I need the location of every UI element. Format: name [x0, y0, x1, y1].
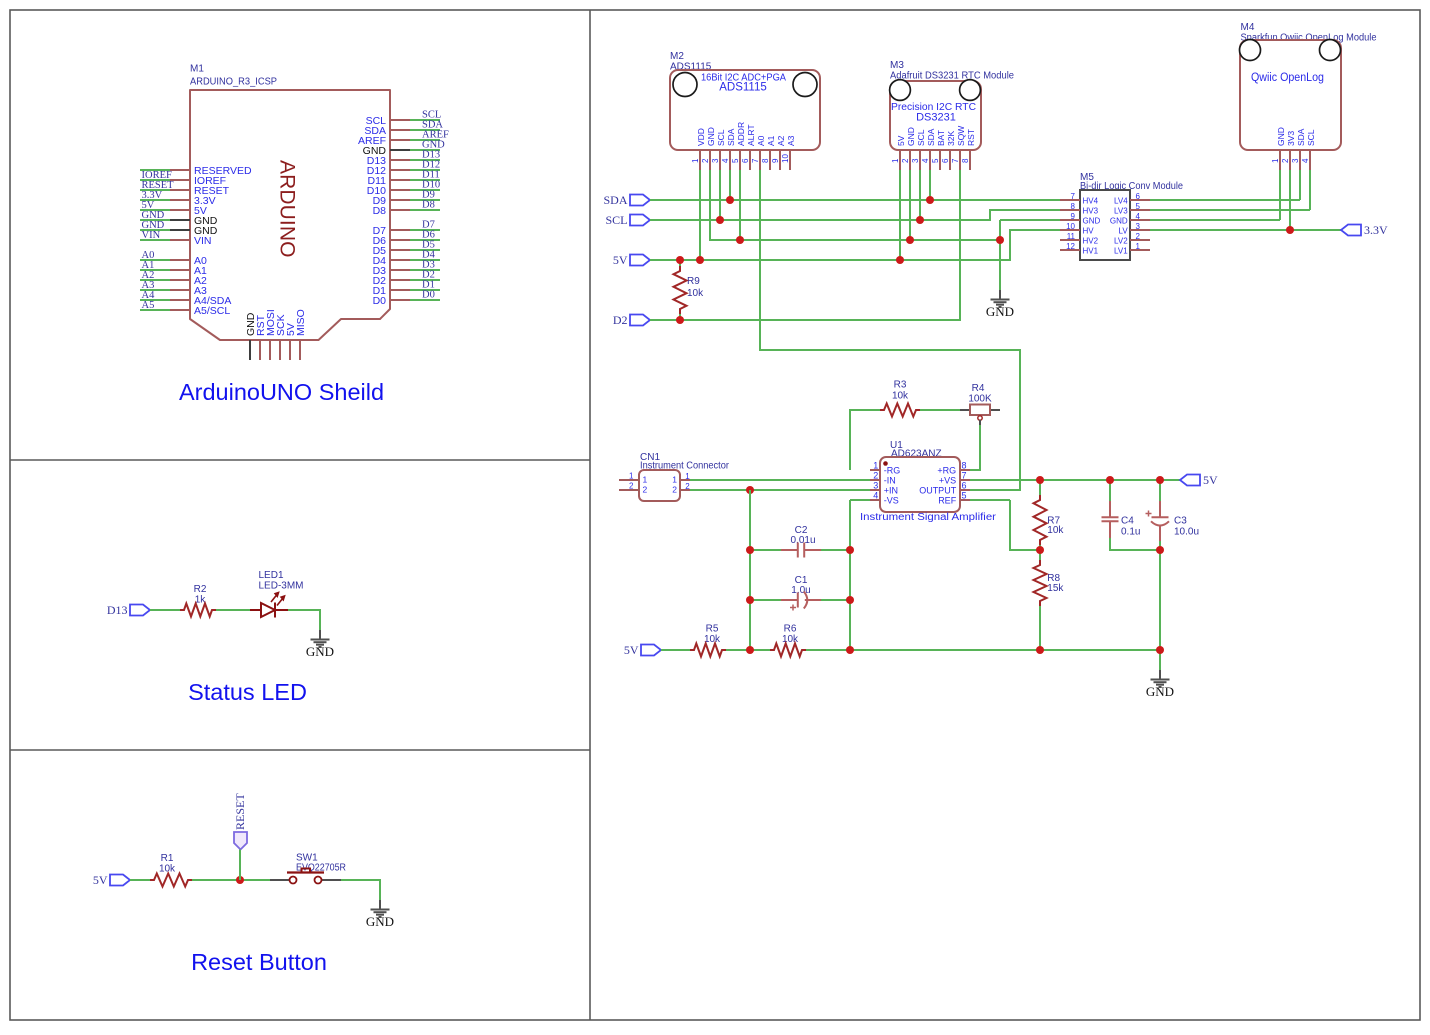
wire 5V to C3	[1159, 480, 1161, 501]
M3 pin 5 BAT	[939, 150, 941, 170]
wire 5V to R9	[679, 260, 681, 266]
wire 5V to R1	[130, 879, 150, 881]
net flag 3.3V	[1341, 225, 1361, 236]
M1 pin A0	[170, 259, 190, 261]
ground GND (I2C bus)	[991, 290, 1010, 307]
CN1 pin 2	[680, 489, 690, 491]
module M5 Bi-dir Logic Conv	[1080, 172, 1183, 260]
M4 pin 4 SCL	[1309, 150, 1311, 170]
M1 pin SDA	[390, 129, 410, 131]
M5 pin 8 HV3	[1060, 209, 1080, 211]
module M1 ARDUINO_R3_ICSP	[190, 64, 390, 341]
wire net D4	[410, 259, 440, 261]
wire net A5 to M1 pin A5/SCL	[140, 309, 170, 311]
M3 pin 8 RST	[969, 150, 971, 170]
U1 pin 8 +RG	[960, 469, 970, 471]
ground GND (status LED)	[311, 630, 330, 647]
wire R4 wiper to U1 +RG	[968, 425, 980, 470]
svg-text:2: 2	[901, 158, 910, 163]
junction 5V/M2 VDD	[696, 256, 704, 264]
svg-text:8: 8	[962, 460, 967, 470]
wire M5 LV3 to M4 SCL	[1150, 209, 1310, 211]
svg-text:A5/SCL: A5/SCL	[194, 305, 230, 317]
M3 pin 4 SDA	[929, 150, 931, 170]
M5 pin 3 LV	[1130, 229, 1150, 231]
wire net VIN to M1 pin VIN	[140, 239, 170, 241]
capacitor C4	[1102, 501, 1119, 538]
M1 pin D4	[390, 259, 410, 261]
net flag D2	[630, 315, 650, 326]
svg-text:A1: A1	[766, 135, 776, 146]
resistor R5	[690, 644, 726, 657]
wire M2 ADDR to GND	[739, 170, 741, 240]
junction C3/rail	[1156, 646, 1164, 654]
wire rail to ground	[1159, 650, 1161, 670]
M1 pin D0	[390, 299, 410, 301]
M1 pin GND	[390, 149, 410, 151]
svg-text:SDA: SDA	[726, 128, 736, 146]
wire 5V to C4	[1109, 480, 1111, 501]
wire R2 to LED1	[216, 609, 250, 611]
M2 pin 1 VDD	[699, 150, 701, 170]
svg-text:R2: R2	[194, 584, 207, 595]
svg-text:ADS1115: ADS1115	[719, 82, 767, 94]
M5 pin 11 HV2	[1060, 239, 1080, 241]
wire R8 to rail	[1039, 606, 1041, 650]
svg-text:M1: M1	[190, 64, 204, 75]
U1 pin 1 -RG	[870, 469, 880, 471]
svg-text:Adafruit DS3231 RTC Module: Adafruit DS3231 RTC Module	[890, 71, 1014, 82]
M2 pin 6 ALRT	[749, 150, 751, 170]
svg-text:LV1: LV1	[1114, 246, 1128, 255]
M1 ICSP pin RST	[259, 340, 261, 360]
svg-text:4: 4	[873, 490, 878, 500]
M2 pin 9 A2	[779, 150, 781, 170]
svg-text:11: 11	[1067, 232, 1076, 241]
M1 pin A3	[170, 289, 190, 291]
svg-text:C4: C4	[1121, 516, 1134, 527]
wire net GND to M1 pin GND	[140, 229, 170, 231]
svg-text:M3: M3	[890, 60, 904, 71]
svg-text:5V: 5V	[896, 135, 906, 146]
wire net A4 to M1 pin A4/SDA	[140, 299, 170, 301]
svg-text:10k: 10k	[782, 634, 799, 645]
svg-text:R3: R3	[894, 380, 907, 391]
wire M2 SCL to SCL	[719, 170, 721, 220]
junction SDA/M3	[926, 196, 934, 204]
wire M3 5V pin to 5V	[899, 170, 901, 260]
svg-text:4: 4	[721, 158, 730, 163]
svg-text:M2: M2	[670, 51, 684, 62]
M1 ICSP pin MOSI	[269, 340, 271, 360]
wire net A3 to M1 pin A3	[140, 289, 170, 291]
ground GND (amp)	[1151, 670, 1170, 687]
svg-text:ALRT: ALRT	[746, 124, 756, 146]
svg-text:1: 1	[873, 460, 878, 470]
net flag RESET	[234, 832, 247, 850]
wire net D10	[410, 189, 440, 191]
svg-text:GND: GND	[1276, 127, 1286, 146]
wire net D2 to M3 SQW	[650, 170, 960, 320]
svg-text:HV3: HV3	[1083, 206, 1099, 215]
CN1 pin 1	[680, 479, 690, 481]
wire R7/R8 node	[1039, 550, 1041, 560]
wire net GND	[410, 149, 440, 151]
junction GND/M2 ADDR	[736, 236, 744, 244]
svg-text:VIN: VIN	[194, 235, 212, 247]
wire R7 bottom	[1039, 545, 1041, 550]
LED LED1	[250, 570, 304, 618]
net flag 5V (right)	[1180, 475, 1200, 486]
wire ground rail	[806, 649, 1160, 651]
M1 pin RESERVED	[170, 169, 190, 171]
M1 pin A4/SDA	[170, 299, 190, 301]
svg-text:1.0u: 1.0u	[791, 585, 810, 596]
resistor R1	[150, 874, 192, 887]
switch SW1 EVQ22705R	[270, 853, 346, 884]
svg-text:-RG: -RG	[884, 465, 901, 475]
CN1 pin 2 stub	[619, 489, 639, 491]
svg-text:SDA: SDA	[926, 128, 936, 146]
wire R1 to SW1	[192, 879, 270, 881]
wire net SDA	[650, 199, 1060, 201]
svg-text:ARDUINO_R3_ICSP: ARDUINO_R3_ICSP	[190, 77, 277, 88]
M5 pin 9 GND	[1060, 219, 1080, 221]
M3 pin 3 SCL	[919, 150, 921, 170]
wire net D6	[410, 239, 440, 241]
svg-text:HV2: HV2	[1083, 236, 1099, 245]
U1 pin 6 OUTPUT	[960, 489, 970, 491]
junction C4/C3	[1156, 546, 1164, 554]
M4 mounting hole	[1240, 40, 1261, 61]
U1 pin 2 -IN	[870, 479, 880, 481]
svg-text:7: 7	[962, 470, 967, 480]
wire net D13	[410, 159, 440, 161]
M1 ICSP pin 5V	[289, 340, 291, 360]
M1 ICSP pin MISO	[299, 340, 301, 360]
wire GND to M5 pin 9	[1000, 219, 1060, 221]
svg-text:SCL: SCL	[1306, 129, 1316, 146]
svg-text:RST: RST	[966, 129, 976, 146]
wire M2 A0 to U1 OUTPUT	[760, 170, 1020, 490]
M1 pin A5/SCL	[170, 309, 190, 311]
svg-text:2: 2	[672, 485, 677, 495]
M3 mounting hole	[890, 80, 911, 101]
M1 pin A1	[170, 269, 190, 271]
junction 5V/M3	[896, 256, 904, 264]
svg-text:3: 3	[711, 158, 720, 163]
wire net A0 to M1 pin A0	[140, 259, 170, 261]
junction C1 right	[846, 596, 854, 604]
svg-text:5: 5	[962, 490, 967, 500]
svg-text:A2: A2	[776, 135, 786, 146]
ground GND (reset)	[371, 900, 390, 917]
M1 pin D12	[390, 169, 410, 171]
M3 pin 6 32K	[949, 150, 951, 170]
svg-text:D0: D0	[373, 295, 387, 307]
svg-text:RESET: RESET	[233, 793, 247, 830]
wire net 5V to M1 pin 5V	[140, 209, 170, 211]
svg-text:3: 3	[1291, 158, 1300, 163]
svg-text:5V: 5V	[93, 873, 108, 887]
wire net AREF	[410, 139, 440, 141]
svg-text:5V: 5V	[613, 253, 628, 267]
svg-text:HV1: HV1	[1083, 246, 1099, 255]
M1 pin 5V	[170, 209, 190, 211]
svg-text:3: 3	[1136, 222, 1141, 231]
svg-text:GND: GND	[1146, 684, 1174, 699]
wire net GND vertical to symbol	[999, 220, 1001, 290]
svg-text:A0: A0	[756, 135, 766, 146]
U1 pin 3 +IN	[870, 489, 880, 491]
wire bias vertical	[749, 490, 751, 650]
M2 pin 5 ADDR	[739, 150, 741, 170]
svg-text:5: 5	[931, 158, 940, 163]
wire net 5V	[650, 230, 1060, 260]
connector CN1 Instrument Connector	[639, 452, 730, 501]
wire net GND horizontal	[710, 170, 1000, 240]
M4 pin 1 GND	[1279, 150, 1281, 170]
wire net RESERVED to M1 pin RESERVED	[140, 169, 170, 171]
M1 pin D1	[390, 289, 410, 291]
junction C1 left	[746, 596, 754, 604]
svg-text:A3: A3	[786, 135, 796, 146]
svg-text:DS3231: DS3231	[916, 112, 956, 124]
wire M5 GND to M4 GND	[1150, 219, 1280, 221]
svg-text:4: 4	[1301, 158, 1310, 163]
M2 pin 8 A1	[769, 150, 771, 170]
M5 pin 10 HV	[1060, 229, 1080, 231]
svg-text:5: 5	[731, 158, 740, 163]
junction R7/5V	[1036, 476, 1044, 484]
svg-text:1: 1	[629, 472, 634, 481]
svg-text:10: 10	[1066, 222, 1075, 231]
M5 pin 7 HV4	[1060, 199, 1080, 201]
junction 3.3V/M4 3V3	[1286, 226, 1294, 234]
wire net D12	[410, 169, 440, 171]
svg-text:SCL: SCL	[605, 213, 627, 227]
svg-text:REF: REF	[938, 495, 957, 505]
wire net D3	[410, 269, 440, 271]
op-amp U1 AD623ANZ	[880, 440, 960, 512]
svg-text:0.01u: 0.01u	[790, 535, 815, 546]
svg-text:LV3: LV3	[1114, 206, 1128, 215]
wire +VS 5V rail	[970, 479, 1180, 481]
wire M3 GND to GND	[909, 170, 911, 240]
wire U1 -VS	[850, 499, 870, 501]
svg-text:4: 4	[921, 158, 930, 163]
svg-text:+VS: +VS	[939, 475, 956, 485]
U1 pin 7 +VS	[960, 479, 970, 481]
wire D13 to R2	[150, 609, 180, 611]
M5 pin 12 HV1	[1060, 249, 1080, 251]
svg-text:ADDR: ADDR	[736, 122, 746, 146]
M2 pin 10 A3	[789, 150, 791, 170]
junction 5V/R9	[676, 256, 684, 264]
svg-text:1: 1	[891, 158, 900, 163]
wire C4 to GND net	[1110, 538, 1160, 550]
M1 ICSP pin SCK	[279, 340, 281, 360]
resistor R2	[180, 604, 216, 617]
M1 pin A2	[170, 279, 190, 281]
M1 pin D13	[390, 159, 410, 161]
wire M4 SDA to LV4	[1299, 170, 1301, 200]
M2 pin 4 SDA	[729, 150, 731, 170]
CN1 pin 1 stub	[619, 479, 639, 481]
svg-text:10k: 10k	[687, 288, 704, 299]
svg-text:3: 3	[911, 158, 920, 163]
svg-text:SDA: SDA	[1296, 128, 1306, 146]
module M2 ADS1115	[670, 51, 820, 150]
capacitor C3 (polarized)	[1146, 501, 1170, 541]
M1 pin D2	[390, 279, 410, 281]
svg-text:Status LED: Status LED	[188, 679, 307, 705]
wire net A2 to M1 pin A2	[140, 279, 170, 281]
M2 pin 7 A0	[759, 150, 761, 170]
svg-text:1: 1	[643, 475, 648, 485]
svg-text:10k: 10k	[1047, 525, 1064, 536]
svg-text:BAT: BAT	[936, 130, 946, 146]
resistor R7	[1034, 495, 1047, 545]
M1 pin D5	[390, 249, 410, 251]
wire C3 to rail	[1159, 541, 1161, 650]
svg-text:+RG: +RG	[937, 465, 956, 475]
net flag SDA	[630, 195, 650, 206]
M2 mounting hole	[793, 73, 817, 97]
module M4 Qwiic OpenLog	[1240, 22, 1377, 150]
svg-text:2: 2	[643, 485, 648, 495]
wire U1 -RG to R3	[850, 410, 880, 470]
M5 pin 6 LV4	[1130, 199, 1150, 201]
svg-text:7: 7	[951, 158, 960, 163]
svg-text:9: 9	[1071, 212, 1076, 221]
svg-text:2: 2	[873, 470, 878, 480]
svg-text:10k: 10k	[892, 391, 909, 402]
svg-text:LED-3MM: LED-3MM	[259, 581, 304, 592]
svg-text:5V: 5V	[624, 643, 639, 657]
svg-text:2: 2	[1136, 232, 1141, 241]
junction R5/R6 node	[746, 646, 754, 654]
svg-text:SCL: SCL	[716, 129, 726, 146]
M1 pin AREF	[390, 139, 410, 141]
net flag 5V	[630, 255, 650, 266]
svg-text:8: 8	[761, 158, 770, 163]
net flag 5V	[110, 875, 130, 886]
wire net D0	[410, 299, 440, 301]
svg-text:SDA: SDA	[603, 193, 627, 207]
svg-text:-IN: -IN	[884, 475, 896, 485]
wire R3 to R4	[920, 409, 960, 411]
svg-text:6: 6	[941, 158, 950, 163]
svg-text:SQW: SQW	[956, 126, 966, 146]
M1 pin GND	[170, 229, 190, 231]
resistor R3	[880, 404, 920, 417]
net flag 5V (amp)	[641, 645, 661, 656]
svg-text:0.1u: 0.1u	[1121, 527, 1140, 538]
svg-text:7: 7	[751, 158, 760, 163]
svg-text:LED1: LED1	[259, 570, 284, 581]
M1 pin SCL	[390, 119, 410, 121]
svg-text:R4: R4	[972, 383, 985, 394]
svg-text:VDD: VDD	[696, 128, 706, 146]
svg-text:OUTPUT: OUTPUT	[919, 485, 957, 495]
M1 pin IOREF	[170, 179, 190, 181]
svg-text:ARDUINO: ARDUINO	[276, 160, 299, 258]
svg-text:GND: GND	[306, 644, 334, 659]
svg-text:R9: R9	[687, 276, 700, 287]
resistor R9	[674, 266, 687, 314]
wire 5V to R5	[661, 649, 690, 651]
svg-text:5V: 5V	[1203, 473, 1218, 487]
junction SCL/M2	[716, 216, 724, 224]
wire M4 SCL to LV3	[1309, 170, 1311, 210]
svg-text:3: 3	[873, 480, 878, 490]
wire SW1 to ground	[341, 880, 380, 900]
svg-text:7: 7	[1071, 192, 1076, 201]
M1 pin D11	[390, 179, 410, 181]
svg-text:HV: HV	[1083, 226, 1095, 235]
svg-text:LV: LV	[1118, 226, 1128, 235]
M5 pin 5 LV3	[1130, 209, 1150, 211]
wire net A1 to M1 pin A1	[140, 269, 170, 271]
junction +IN bias node	[746, 486, 754, 494]
wire net D9	[410, 199, 440, 201]
U1 pin 5 REF	[960, 499, 970, 501]
wire -VS to ground rail	[849, 500, 851, 650]
wire M4 3V3 to 3.3V	[1289, 170, 1291, 230]
svg-text:GND: GND	[706, 127, 716, 146]
junction C2 left	[746, 546, 754, 554]
svg-text:D8: D8	[373, 205, 387, 217]
module M3 DS3231	[890, 60, 1015, 150]
svg-text:9: 9	[771, 158, 780, 163]
wire C1 to -VS rail	[821, 599, 850, 601]
svg-text:Qwiic OpenLog: Qwiic OpenLog	[1251, 72, 1324, 84]
wire M2 VDD to 5V	[699, 170, 701, 260]
svg-text:D13: D13	[107, 603, 128, 617]
M1 pin 3.3V	[170, 199, 190, 201]
svg-text:6: 6	[962, 480, 967, 490]
svg-text:SCL: SCL	[916, 129, 926, 146]
wire CN1-2 to U1 +IN	[690, 489, 870, 491]
svg-text:1: 1	[1136, 242, 1141, 251]
wire net D8	[410, 209, 440, 211]
svg-text:10: 10	[781, 154, 790, 163]
M1 pin D10	[390, 189, 410, 191]
svg-text:GND: GND	[1083, 216, 1101, 225]
M1 pin D9	[390, 199, 410, 201]
junction C4/5V	[1106, 476, 1114, 484]
wire to C1	[750, 599, 781, 601]
M5 pin 1 LV1	[1130, 249, 1150, 251]
svg-text:5: 5	[1136, 202, 1141, 211]
svg-text:R6: R6	[784, 624, 797, 635]
wire net D5	[410, 249, 440, 251]
wire net D1	[410, 289, 440, 291]
svg-text:ArduinoUNO Sheild: ArduinoUNO Sheild	[179, 379, 384, 405]
svg-text:6: 6	[1136, 192, 1141, 201]
M1 pin D3	[390, 269, 410, 271]
svg-text:6: 6	[741, 158, 750, 163]
wire REF to divider	[1010, 500, 1040, 550]
M5 pin 4 GND	[1130, 219, 1150, 221]
trimmer R4 100K	[960, 383, 1000, 425]
svg-text:10.0u: 10.0u	[1174, 527, 1199, 538]
svg-text:MISO: MISO	[295, 309, 307, 336]
junction C2 right	[846, 546, 854, 554]
wire LED1 to ground	[288, 610, 320, 630]
svg-text:M4: M4	[1241, 22, 1255, 33]
